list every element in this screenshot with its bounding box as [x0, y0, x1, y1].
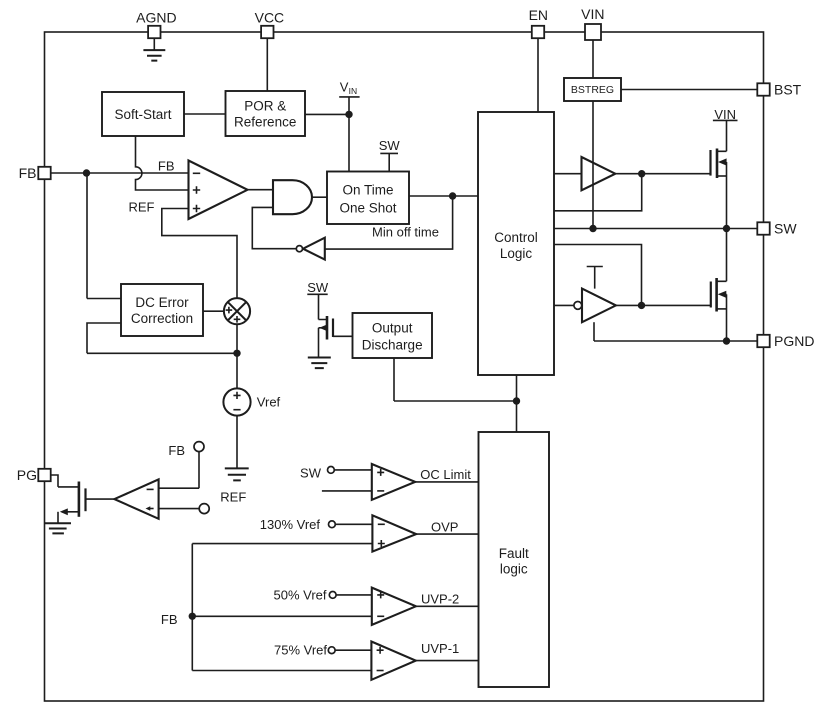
- wire FB pin to comparator minus input: [51, 172, 189, 174]
- inverter U3 (min off time): [296, 238, 325, 260]
- wire 130% Vref terminal to OVP comparator minus input: [335, 523, 372, 525]
- wire high-side driver output to Q1 gate: [615, 173, 710, 175]
- svg-text:VCC: VCC: [255, 10, 285, 26]
- Soft-Start block: [102, 92, 184, 136]
- svg-text:logic: logic: [500, 562, 528, 577]
- pin PG: [17, 467, 51, 483]
- wire Control Logic to low-side driver input: [554, 304, 574, 306]
- pin BST: [757, 81, 801, 97]
- comparator U10 (power good): [114, 479, 158, 518]
- wire OC comparator minus input stub: [322, 490, 372, 492]
- comparator U8 (UVP-2): [372, 588, 416, 625]
- node SW at driver rail: [589, 225, 596, 232]
- node FB: [83, 169, 90, 176]
- svg-text:SW: SW: [307, 280, 329, 295]
- VIN rail label at Q1 drain: [713, 107, 738, 122]
- wire POR & Reference to VIN node: [305, 113, 349, 115]
- comparator U1 (PWM comparator): [189, 161, 248, 220]
- svg-text:REF: REF: [129, 199, 155, 214]
- ground at Q3: [308, 358, 331, 369]
- wire FB riser: [191, 544, 193, 671]
- wire SW terminal to OC comparator plus input: [334, 469, 372, 471]
- DC Error Correction block: [121, 284, 203, 336]
- wire high-side gate sense to Control Logic: [554, 174, 642, 211]
- svg-text:On Time: On Time: [342, 182, 393, 197]
- voltage source Vref: [223, 388, 280, 415]
- svg-text:SW: SW: [774, 220, 797, 236]
- svg-text:Discharge: Discharge: [362, 337, 423, 352]
- svg-text:FB: FB: [19, 165, 37, 181]
- wire EN to Control Logic: [537, 38, 539, 112]
- wire FB riser to UVP-2 minus input: [192, 615, 371, 617]
- svg-text:VIN: VIN: [581, 6, 604, 22]
- wire OC comparator to Fault logic: [415, 481, 478, 483]
- terminal SW (open circle): [328, 467, 335, 474]
- transistor Q3 (output discharge NMOS): [319, 294, 334, 357]
- pin FB: [19, 165, 51, 181]
- wire FB riser to OVP comparator plus input: [192, 543, 372, 545]
- wire low-side driver ground to PGND rail: [593, 322, 595, 341]
- ground at Q4: [45, 523, 71, 533]
- node fault input: [513, 397, 520, 404]
- wire VIN to BSTREG: [592, 40, 594, 78]
- Control Logic block: [478, 112, 554, 375]
- svg-text:UVP-1: UVP-1: [421, 641, 459, 656]
- svg-text:DC Error: DC Error: [135, 295, 189, 310]
- wire Q3 gate to Output Discharge: [333, 335, 353, 337]
- svg-text:75% Vref: 75% Vref: [274, 643, 327, 658]
- svg-text:Logic: Logic: [500, 246, 533, 261]
- wire low-side driver output to Q2 gate: [616, 304, 711, 306]
- wire FB terminal to PG comparator minus input: [159, 452, 199, 489]
- POR & Reference block: [226, 91, 306, 136]
- pin AGND: [136, 10, 176, 39]
- BSTREG block: [564, 78, 621, 101]
- wire VCC to POR & Reference: [266, 38, 268, 91]
- transistor Q2 (low-side NMOS): [711, 229, 727, 342]
- wire Soft-Start output to comparator plus input (hops over FB wire): [136, 136, 189, 190]
- transistor Q4 (power good NMOS): [58, 482, 86, 524]
- wire 75% Vref terminal to UVP-1 plus input: [335, 649, 371, 651]
- wire UVP-2 comparator to Fault logic: [416, 605, 479, 607]
- wire AND gate to On Time One Shot: [312, 196, 327, 198]
- svg-text:IN: IN: [349, 86, 358, 96]
- svg-text:Correction: Correction: [131, 311, 193, 326]
- wire summer to Vref source: [236, 324, 238, 388]
- terminal REF (open circle): [199, 504, 209, 514]
- terminal 50% Vref (open circle): [329, 592, 336, 599]
- wire PG pin to Q4 drain: [51, 475, 79, 487]
- wire SW rail from Control Logic to SW pin: [554, 228, 757, 230]
- svg-text:REF: REF: [220, 490, 246, 505]
- svg-text:UVP-2: UVP-2: [421, 592, 459, 607]
- wire Soft-Start to POR & Reference: [184, 113, 226, 115]
- node VIN rail: [345, 111, 352, 118]
- svg-text:Reference: Reference: [234, 114, 296, 129]
- node on-time output: [449, 192, 456, 199]
- svg-text:PGND: PGND: [774, 333, 814, 349]
- pin SW: [757, 220, 797, 236]
- wire on-time output down to inverter input: [325, 196, 453, 249]
- svg-text:SW: SW: [300, 466, 322, 481]
- svg-text:SW: SW: [379, 138, 401, 153]
- transistor Q1 (high-side NMOS): [711, 120, 727, 228]
- wire DC Error Correction lower terminal to Vref node: [87, 323, 237, 353]
- wire Vref source to ground: [236, 416, 238, 469]
- svg-text:FB: FB: [168, 443, 185, 458]
- SW rail symbol at discharge FET: [307, 280, 329, 295]
- node high-side gate: [638, 170, 645, 177]
- comparator U7 (OVP): [372, 515, 416, 551]
- ground below Vref: [225, 468, 249, 480]
- wire inverter output to AND gate bottom input: [252, 207, 296, 248]
- svg-text:BSTREG: BSTREG: [571, 84, 614, 96]
- low-side driver U5: [574, 289, 616, 323]
- svg-text:130% Vref: 130% Vref: [260, 517, 321, 532]
- wire REF terminal to PG comparator plus input: [159, 508, 200, 510]
- wire BSTREG down through driver to SW rail: [592, 101, 594, 229]
- svg-text:50% Vref: 50% Vref: [274, 587, 327, 602]
- SW rail symbol above On Time One Shot: [379, 138, 401, 172]
- svg-text:Fault: Fault: [499, 546, 529, 561]
- pin EN: [529, 7, 548, 38]
- wire PG comparator output to Q4 gate: [86, 498, 115, 500]
- node SW at Q1 source: [723, 225, 730, 232]
- comparator U9 (UVP-1): [371, 642, 415, 680]
- pin VCC: [255, 10, 285, 39]
- wire Control Logic to high-side driver input: [554, 173, 582, 175]
- svg-text:V: V: [340, 79, 349, 94]
- wire On Time One Shot to Control Logic: [409, 195, 478, 197]
- On Time One Shot block: [327, 172, 409, 225]
- terminal 75% Vref (open circle): [328, 647, 335, 654]
- wire BSTREG to BST pin: [621, 89, 757, 91]
- ground symbol at AGND: [143, 38, 165, 60]
- svg-text:Vref: Vref: [257, 395, 281, 410]
- wire Output Discharge to fault node: [394, 358, 517, 401]
- Fault logic block: [479, 432, 550, 687]
- svg-text:BST: BST: [774, 81, 802, 97]
- terminal FB (open circle): [194, 442, 204, 452]
- node FB riser: [189, 613, 196, 620]
- supply bar above low-side driver: [587, 267, 603, 289]
- wire VIN node to On Time One Shot: [348, 97, 350, 172]
- svg-text:PG: PG: [17, 467, 37, 483]
- svg-text:EN: EN: [529, 7, 548, 23]
- node PGND at Q2 source: [723, 337, 730, 344]
- svg-text:AGND: AGND: [136, 10, 176, 26]
- pin PGND: [757, 333, 814, 349]
- svg-text:Control: Control: [494, 230, 538, 245]
- wire FB node down to DC Error Correction input: [87, 173, 121, 299]
- svg-text:POR &: POR &: [244, 98, 286, 113]
- summer (multiplier node): [224, 298, 250, 324]
- wire UVP-1 comparator to Fault logic: [416, 660, 479, 662]
- svg-text:FB: FB: [161, 612, 178, 627]
- AND gate U2: [273, 180, 312, 214]
- terminal 130% Vref (open circle): [329, 521, 336, 528]
- node Vref: [233, 350, 240, 357]
- high-side driver U4: [582, 157, 616, 190]
- svg-text:FB: FB: [158, 158, 175, 173]
- pin VIN: [581, 6, 604, 40]
- wire PGND rail to PGND pin: [594, 340, 757, 342]
- svg-text:OC Limit: OC Limit: [420, 467, 471, 482]
- wire FB riser to UVP-1 minus input: [192, 670, 371, 672]
- svg-text:OVP: OVP: [431, 519, 458, 534]
- Output Discharge block: [353, 313, 433, 358]
- comparator U6 (OC Limit): [372, 464, 415, 500]
- svg-text:Min off time: Min off time: [372, 225, 439, 240]
- wire DC Error Correction to summer: [203, 310, 224, 312]
- VIN rail symbol and label: [339, 79, 359, 97]
- svg-text:Output: Output: [372, 320, 413, 335]
- svg-text:Soft-Start: Soft-Start: [114, 107, 171, 122]
- wire comparator output to AND gate: [248, 189, 274, 191]
- wire 50% Vref terminal to UVP-2 plus input: [336, 594, 372, 596]
- node low-side gate: [638, 302, 645, 309]
- wire Control Logic low-side sense down to driver output: [554, 245, 642, 306]
- wire OVP comparator to Fault logic: [416, 533, 478, 535]
- svg-text:One Shot: One Shot: [339, 200, 396, 215]
- wire Control Logic to Fault logic: [516, 375, 518, 432]
- wire summer output to comparator bottom plus input: [162, 209, 237, 299]
